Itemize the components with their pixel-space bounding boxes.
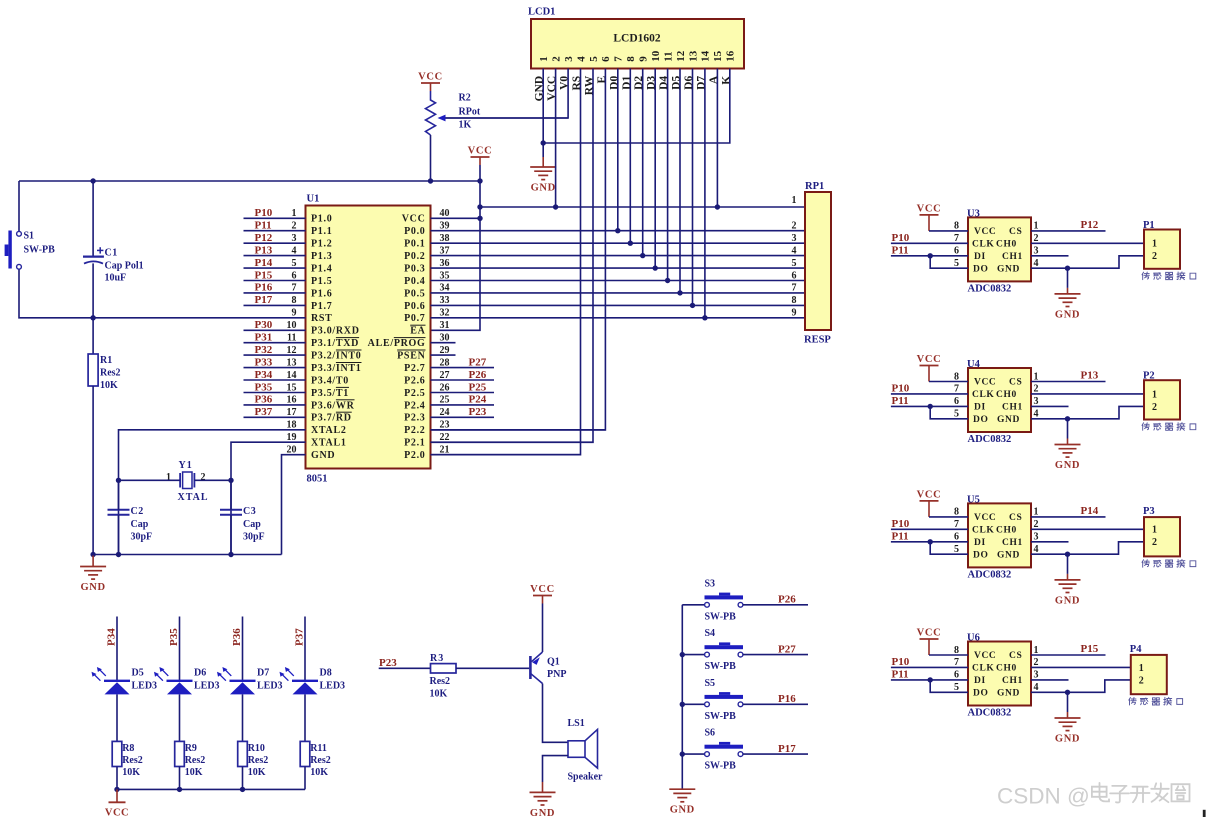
svg-text:CH1: CH1 (1002, 676, 1023, 686)
svg-text:2: 2 (1034, 384, 1039, 395)
Q1 labels (547, 657, 566, 681)
wire Q1 collector to speaker (543, 684, 569, 743)
svg-text:CH0: CH0 (996, 664, 1017, 674)
Y1 part XTAL (178, 492, 209, 503)
svg-text:P24: P24 (469, 394, 487, 406)
svg-text:3: 3 (292, 233, 297, 244)
wire U6 pin8 VCC (929, 654, 968, 656)
wire LED to R9 (179, 694, 181, 741)
LED D8 (280, 667, 319, 694)
svg-text:VCC: VCC (418, 72, 443, 83)
speaker LS1 (568, 729, 598, 768)
svg-text:EA: EA (410, 326, 425, 337)
svg-text:1: 1 (1034, 221, 1039, 232)
svg-text:25: 25 (440, 395, 450, 406)
svg-text:R2: R2 (459, 93, 471, 104)
LCD1 designator (528, 7, 555, 18)
wire U3 pin8 VCC (929, 230, 968, 232)
svg-text:GND: GND (311, 450, 335, 461)
connector P2 body (1144, 380, 1180, 419)
svg-text:6: 6 (954, 670, 959, 681)
svg-text:U5: U5 (967, 494, 980, 505)
svg-text:GND: GND (530, 808, 555, 817)
svg-text:Res2: Res2 (310, 755, 331, 766)
wire U4 pin8 VCC (929, 381, 968, 383)
svg-text:Res2: Res2 (122, 755, 143, 766)
svg-text:U3: U3 (967, 208, 980, 219)
svg-text:S4: S4 (705, 628, 716, 639)
svg-text:C1: C1 (105, 248, 118, 259)
svg-text:S1: S1 (24, 231, 35, 242)
net label P10 wire to U6 CLK (891, 656, 968, 668)
svg-text:S3: S3 (705, 578, 716, 589)
wire U1 pin20 GND down (282, 455, 306, 555)
wire U6 CS with net label P15 (1031, 643, 1106, 655)
wire U3 CS with net label P12 (1031, 219, 1106, 231)
svg-text:1: 1 (538, 56, 550, 62)
sensor interface label for P3 (1142, 560, 1196, 568)
svg-text:10K: 10K (248, 767, 266, 778)
svg-text:3: 3 (792, 233, 797, 244)
wire U6 GND to ground and connector (1031, 680, 1131, 695)
sensor interface label for P1 (1142, 272, 1196, 280)
svg-text:P26: P26 (469, 369, 487, 381)
wire LCD pin16 K to GND junction (543, 69, 730, 144)
svg-text:GND: GND (997, 550, 1020, 560)
svg-text:P2.5: P2.5 (404, 388, 425, 399)
wire U4 CS with net label P13 (1031, 370, 1106, 382)
svg-text:P30: P30 (255, 319, 273, 331)
svg-text:P17: P17 (778, 743, 796, 755)
U3 part ADC0832 (968, 283, 1012, 294)
wire S4 to net label P27 (743, 643, 808, 655)
svg-text:D7: D7 (257, 668, 269, 679)
svg-text:11: 11 (287, 333, 296, 344)
svg-text:30pF: 30pF (243, 532, 265, 543)
wire R11 to VCC rail (304, 767, 306, 790)
svg-text:9: 9 (638, 56, 650, 62)
svg-text:33: 33 (440, 295, 450, 306)
svg-text:U1: U1 (307, 194, 320, 205)
svg-text:35: 35 (440, 270, 450, 281)
svg-text:SW-PB: SW-PB (705, 761, 737, 772)
svg-text:GND: GND (997, 689, 1020, 699)
U3 pin numbers right 1 2 3 4 (1034, 221, 1039, 269)
wire LCD pin5 RW to U1 P2.1 (431, 69, 594, 443)
U4 pin numbers right 1 2 3 4 (1034, 371, 1039, 419)
wire speaker to ground (543, 756, 569, 782)
wire U5 pin8 VCC (929, 516, 968, 518)
wire LED to R11 (304, 694, 306, 741)
svg-text:P11: P11 (255, 220, 272, 232)
svg-text:7: 7 (613, 56, 625, 62)
svg-text:P0.3: P0.3 (404, 264, 425, 275)
svg-text:5: 5 (954, 682, 959, 693)
svg-text:GND: GND (670, 805, 695, 816)
wire U5 GND to ground and connector (1031, 542, 1144, 557)
wire and net label P35 (168, 617, 180, 681)
resistor R8 (112, 741, 122, 766)
R2 designator and value labels (459, 93, 481, 131)
svg-text:9: 9 (292, 308, 297, 319)
svg-text:P11: P11 (892, 668, 909, 680)
U4 designator (967, 359, 981, 370)
svg-text:4: 4 (792, 245, 797, 256)
svg-text:34: 34 (440, 283, 450, 294)
S6 labels (705, 728, 737, 772)
push button S5 (682, 692, 743, 707)
wire and net label P34 (106, 617, 118, 681)
svg-text:P2.1: P2.1 (404, 438, 425, 449)
svg-text:P13: P13 (255, 244, 273, 256)
svg-text:P3.1/TXD: P3.1/TXD (311, 338, 359, 349)
wire U6 CH1 stub (1031, 679, 1069, 681)
svg-text:D6: D6 (194, 668, 206, 679)
C1 labels (105, 248, 144, 284)
svg-text:36: 36 (440, 258, 450, 269)
svg-text:8051: 8051 (307, 474, 328, 485)
svg-text:P17: P17 (255, 294, 273, 306)
resistor R10 (238, 741, 248, 766)
svg-text:2: 2 (1152, 251, 1157, 262)
svg-text:23: 23 (440, 420, 450, 431)
R9 labels (185, 743, 206, 778)
ground symbol bottom left (80, 556, 106, 594)
svg-text:P0.2: P0.2 (404, 251, 425, 262)
U6 designator (967, 633, 980, 644)
svg-text:P2.0: P2.0 (404, 450, 425, 461)
svg-text:1K: 1K (459, 120, 472, 131)
wire C1 to R1 (92, 318, 94, 354)
svg-text:31: 31 (440, 320, 450, 331)
wire crystal right (194, 479, 231, 481)
svg-text:P33: P33 (255, 356, 273, 368)
wire U3 CH1 stub (1031, 255, 1069, 257)
svg-text:5: 5 (954, 258, 959, 269)
ground symbol under U6 (1055, 692, 1081, 744)
svg-text:P0.5: P0.5 (404, 288, 425, 299)
wire VCC rail to RP1 pin1 (480, 206, 805, 208)
svg-text:P2.4: P2.4 (404, 400, 425, 411)
svg-text:16: 16 (287, 395, 297, 406)
net label P10 wire to U4 CLK (891, 382, 968, 394)
C3 labels (243, 506, 265, 543)
wires U1 pins 28-24 stubs with net labels (431, 356, 495, 418)
svg-text:P31: P31 (255, 332, 273, 344)
svg-text:4: 4 (1034, 409, 1039, 420)
svg-text:1: 1 (1139, 663, 1144, 674)
svg-text:12: 12 (675, 50, 687, 62)
svg-text:18: 18 (287, 420, 297, 431)
svg-text:ADC0832: ADC0832 (968, 708, 1012, 719)
wire crystal left (119, 479, 181, 481)
svg-text:6: 6 (954, 246, 959, 257)
svg-text:GND: GND (1055, 734, 1080, 745)
wire LCD pin1 GND down (541, 69, 546, 158)
svg-text:13: 13 (687, 50, 699, 62)
svg-text:2: 2 (550, 56, 562, 62)
svg-text:13: 13 (287, 357, 297, 368)
svg-text:26: 26 (440, 382, 450, 393)
svg-text:1: 1 (1152, 389, 1157, 400)
svg-text:10: 10 (650, 50, 662, 62)
svg-text:2: 2 (201, 472, 206, 483)
svg-text:SW-PB: SW-PB (705, 611, 737, 622)
D5 labels (132, 668, 158, 692)
svg-text:Res2: Res2 (100, 368, 121, 379)
wire LED VCC rail (114, 787, 305, 792)
svg-text:ADC0832: ADC0832 (968, 434, 1012, 445)
svg-text:7: 7 (954, 519, 959, 530)
svg-text:17: 17 (287, 407, 297, 418)
svg-text:P3: P3 (1143, 506, 1155, 517)
svg-text:P36: P36 (231, 628, 243, 646)
svg-text:5: 5 (954, 409, 959, 420)
wire and net label P37 (294, 617, 306, 681)
svg-text:XTAL: XTAL (178, 492, 209, 503)
wires LCD D0-D7 verticals to P0 bus (615, 69, 708, 321)
U5 pin numbers left 8 7 6 5 (954, 507, 959, 555)
svg-text:DO: DO (973, 264, 988, 274)
svg-text:RP1: RP1 (805, 181, 824, 192)
svg-text:7: 7 (792, 283, 797, 294)
svg-text:22: 22 (440, 432, 450, 443)
svg-text:VCC: VCC (974, 651, 996, 661)
net label P11 wire to U3 DI DO (891, 244, 968, 268)
svg-text:21: 21 (440, 445, 450, 456)
svg-text:CS: CS (1009, 227, 1022, 237)
svg-text:LS1: LS1 (568, 718, 585, 729)
LCD pin numbers 1-16 (538, 50, 737, 62)
svg-text:5: 5 (792, 258, 797, 269)
wire LCD pin3 V0 to potentiometer wiper (441, 69, 569, 119)
svg-text:DI: DI (974, 403, 986, 413)
svg-text:CLK: CLK (972, 240, 994, 250)
svg-text:R3: R3 (430, 653, 444, 664)
svg-text:16: 16 (725, 50, 737, 62)
svg-text:P2.3: P2.3 (404, 413, 425, 424)
svg-text:XTAL1: XTAL1 (311, 438, 347, 449)
svg-text:9: 9 (792, 308, 797, 319)
connector P3 designator (1143, 506, 1155, 517)
wire R2 bottom to VCC rail (428, 135, 433, 184)
svg-text:S6: S6 (705, 728, 716, 739)
svg-text:D5: D5 (132, 668, 144, 679)
svg-text:CLK: CLK (972, 526, 994, 536)
svg-text:1: 1 (166, 472, 171, 483)
svg-text:38: 38 (440, 233, 450, 244)
RP1 designator (805, 181, 824, 192)
wire S3 to net label P26 (743, 594, 808, 606)
ground symbol under U3 (1055, 268, 1081, 320)
svg-text:VCC: VCC (917, 628, 942, 639)
svg-text:8: 8 (625, 56, 637, 62)
svg-text:CH1: CH1 (1002, 538, 1023, 548)
svg-text:2: 2 (1139, 675, 1144, 686)
svg-text:8: 8 (954, 371, 959, 382)
ADC chip U6 body (968, 642, 1031, 706)
svg-text:P1: P1 (1143, 220, 1155, 231)
svg-text:P11: P11 (892, 395, 909, 407)
svg-text:14: 14 (287, 370, 297, 381)
svg-text:10: 10 (287, 320, 297, 331)
wire U5 CS with net label P14 (1031, 505, 1106, 517)
svg-text:DI: DI (974, 252, 986, 262)
svg-text:P3.3/INT1: P3.3/INT1 (311, 363, 361, 374)
R3 labels (430, 653, 451, 700)
svg-text:1: 1 (292, 208, 297, 219)
svg-text:C3: C3 (243, 506, 256, 517)
svg-text:ADC0832: ADC0832 (968, 569, 1012, 580)
svg-text:24: 24 (440, 407, 450, 418)
U1 left net labels P10-P17 (255, 207, 273, 306)
svg-text:P10: P10 (892, 232, 910, 244)
svg-text:CH1: CH1 (1002, 252, 1023, 262)
wire LCD pin15 A down to VCC rail (715, 69, 720, 210)
svg-text:P16: P16 (255, 282, 273, 294)
svg-text:P12: P12 (255, 232, 273, 244)
ground symbol under LCD (530, 157, 556, 194)
svg-text:6: 6 (292, 270, 297, 281)
svg-text:2: 2 (1152, 537, 1157, 548)
wire U4 GND to ground and connector (1031, 406, 1144, 421)
svg-text:14: 14 (700, 50, 712, 62)
LED D7 (217, 667, 256, 694)
U1 left net labels P30-P37 (255, 319, 273, 418)
wire R10 to VCC rail (242, 767, 244, 790)
svg-text:P15: P15 (1081, 643, 1099, 655)
wire LCD pin6 E to U1 P2.2 (431, 69, 606, 430)
U1 left pin numbers 1-20 (287, 208, 297, 455)
net label P11 wire to U5 DI DO (891, 530, 968, 554)
wires P0.0-P0.7 bus to RP1 (431, 231, 806, 318)
svg-text:LCD1602: LCD1602 (613, 33, 661, 45)
resistor R1 (88, 354, 98, 386)
wire R9 to VCC rail (179, 767, 181, 790)
wire U4 CH0 to connector P2 (1031, 393, 1144, 395)
svg-text:R9: R9 (185, 743, 197, 754)
svg-text:P10: P10 (892, 382, 910, 394)
svg-text:DO: DO (973, 550, 988, 560)
R10 labels (248, 743, 269, 778)
svg-text:SW-PB: SW-PB (705, 711, 737, 722)
svg-text:P15: P15 (255, 269, 273, 281)
svg-text:8: 8 (954, 221, 959, 232)
wire U1 pin9 RST from reset circuit (19, 269, 306, 320)
wires U1 left pins 10-17 (244, 330, 306, 417)
wire U5 CH1 stub (1031, 541, 1069, 543)
VCC symbol for U3 (917, 203, 942, 231)
svg-text:P10: P10 (892, 656, 910, 668)
svg-text:U4: U4 (967, 359, 981, 370)
svg-text:37: 37 (440, 245, 450, 256)
svg-text:1: 1 (1152, 525, 1157, 536)
svg-text:P27: P27 (469, 356, 487, 368)
wire U1 pin19 XTAL1 to crystal (228, 442, 305, 557)
S4 labels (705, 628, 737, 672)
svg-text:SW-PB: SW-PB (24, 245, 56, 256)
svg-text:P25: P25 (469, 381, 487, 393)
LS1 part Speaker (568, 772, 604, 783)
svg-text:P35: P35 (168, 628, 180, 646)
wire and net label P36 (231, 617, 243, 681)
svg-text:P27: P27 (778, 643, 796, 655)
svg-text:CLK: CLK (972, 390, 994, 400)
svg-text:C2: C2 (131, 506, 144, 517)
wire U6 CH0 to connector P4 (1031, 666, 1131, 668)
VCC symbol above U1 (468, 146, 493, 166)
net label P10 wire to U5 CLK (891, 518, 968, 530)
wire top VCC rail (19, 178, 480, 183)
svg-text:2: 2 (1034, 657, 1039, 668)
capacitor C2 (108, 480, 130, 554)
U3 pin names (972, 227, 1023, 274)
svg-text:P26: P26 (778, 594, 796, 606)
svg-text:P1.0: P1.0 (311, 214, 332, 225)
svg-text:R1: R1 (100, 355, 112, 366)
RP1 part RESP (804, 335, 831, 346)
U1 part number 8051 (307, 474, 328, 485)
svg-text:11: 11 (662, 51, 674, 61)
svg-text:P34: P34 (106, 628, 118, 646)
svg-text:2: 2 (792, 221, 797, 232)
svg-text:GND: GND (531, 183, 556, 194)
push button S3 (682, 593, 743, 608)
svg-text:P11: P11 (892, 244, 909, 256)
wire U4 CH1 stub (1031, 405, 1069, 407)
resistor R9 (175, 741, 185, 766)
ground symbol under buttons (669, 789, 695, 816)
wire U1 pin22 P2.1 to LCD RW (431, 441, 594, 443)
connector P2 designator (1143, 371, 1155, 382)
svg-text:CH0: CH0 (996, 390, 1017, 400)
svg-text:1: 1 (1034, 507, 1039, 518)
svg-text:VCC: VCC (402, 214, 426, 225)
wire LED to R8 (116, 694, 118, 741)
LED D5 (92, 667, 131, 694)
VCC symbol bottom of LED rail (105, 789, 129, 817)
RP1 pin numbers 1-9 (792, 195, 797, 319)
sensor interface label for P4 (1129, 697, 1183, 705)
U3 pin numbers left 8 7 6 5 (954, 221, 959, 269)
svg-text:P1.4: P1.4 (311, 264, 332, 275)
svg-text:P3.4/T0: P3.4/T0 (311, 375, 349, 386)
U5 designator (967, 494, 980, 505)
svg-text:39: 39 (440, 221, 450, 232)
wire U3 GND to ground and connector (1031, 256, 1144, 271)
U1 left pin names (311, 214, 361, 461)
svg-text:CS: CS (1009, 378, 1022, 388)
R1 labels (100, 355, 121, 391)
svg-text:27: 27 (440, 370, 450, 381)
svg-text:6: 6 (954, 396, 959, 407)
U6 pin numbers right 1 2 3 4 (1034, 645, 1039, 693)
wire R8 to VCC rail (116, 767, 118, 790)
svg-text:6: 6 (954, 532, 959, 543)
svg-text:1: 1 (1034, 645, 1039, 656)
potentiometer R2 zigzag (426, 91, 436, 135)
VCC symbol above R2 (418, 72, 443, 92)
svg-text:DI: DI (974, 676, 986, 686)
U1 right pin numbers 40-21 (440, 208, 450, 455)
svg-text:5: 5 (954, 544, 959, 555)
net label P11 wire to U6 DI DO (891, 668, 968, 692)
connector P4 designator (1130, 644, 1142, 655)
svg-text:S5: S5 (705, 678, 716, 689)
svg-text:8: 8 (292, 295, 297, 306)
R11 labels (310, 743, 331, 778)
svg-text:CH0: CH0 (996, 526, 1017, 536)
